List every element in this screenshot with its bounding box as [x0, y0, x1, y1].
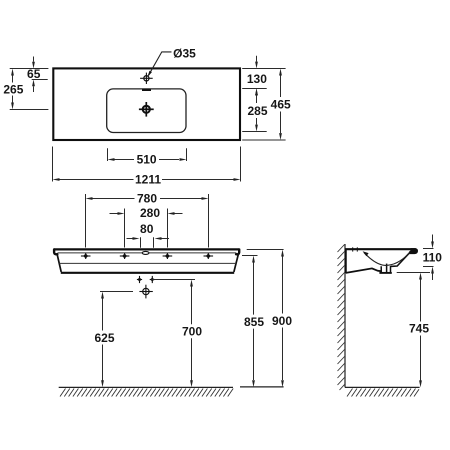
overflow slot — [142, 89, 151, 91]
svg-text:280: 280 — [140, 206, 160, 220]
washbasin top outer rect — [53, 68, 240, 140]
body left edge — [57, 253, 61, 272]
drain crosshair (front) — [139, 285, 152, 299]
svg-text:1211: 1211 — [135, 172, 161, 186]
drain trap cup (side) — [381, 266, 390, 272]
svg-text:700: 700 — [182, 325, 202, 339]
ground hatching (front) — [60, 389, 233, 397]
dim 900 — [247, 250, 284, 381]
ground hatching (side) — [347, 389, 419, 397]
svg-text:625: 625 — [94, 331, 114, 345]
dim 285 (right) — [242, 95, 267, 131]
svg-text:780: 780 — [137, 191, 157, 205]
svg-text:130: 130 — [247, 72, 267, 86]
dim 780 — [86, 194, 209, 248]
basin bowl rounded rect — [107, 89, 186, 133]
basin front: rim bar — [54, 249, 239, 272]
svg-text:510: 510 — [137, 153, 157, 167]
svg-text:65: 65 — [27, 67, 41, 81]
svg-text:110: 110 — [423, 250, 443, 264]
svg-text:465: 465 — [271, 98, 291, 112]
dim 625 — [100, 292, 133, 381]
fixing holes below basin (2x) — [137, 276, 155, 283]
rim left end hook — [54, 249, 57, 254]
dim 745 — [397, 273, 430, 381]
rim underside line — [58, 252, 237, 254]
body right edge — [234, 253, 239, 272]
svg-text:285: 285 — [247, 104, 267, 118]
dim 65 (left) — [10, 57, 49, 93]
ground line under dims — [240, 386, 284, 388]
body bottom edge — [61, 272, 234, 274]
dim 265 (left) — [10, 75, 49, 109]
wall hatching — [338, 245, 345, 391]
rim right end hook — [236, 249, 239, 254]
bowl profile arc with arrow — [364, 253, 410, 266]
side rim front lip — [409, 248, 418, 254]
side bottom profile — [346, 268, 381, 273]
overflow oval (front) — [142, 251, 149, 254]
dim 110 — [423, 235, 434, 281]
body mid line — [59, 262, 236, 264]
svg-text:265: 265 — [3, 82, 23, 96]
side back edge — [345, 250, 347, 273]
faucet hole crosshair — [140, 73, 153, 84]
underside to lip (side) — [391, 254, 409, 267]
dim 465 (right) — [242, 75, 285, 140]
svg-text:855: 855 — [244, 315, 264, 329]
dim 130 (right) — [242, 56, 285, 102]
dim 510 (below plan) — [108, 148, 187, 161]
dim 1211 (below plan) — [53, 147, 241, 182]
ground line (front view) — [59, 386, 233, 388]
drain crosshair (plan) — [139, 102, 154, 117]
svg-text:Ø35: Ø35 — [173, 47, 196, 61]
label O35 leader — [149, 52, 172, 75]
drain pipe line (side) — [386, 264, 388, 274]
svg-text:745: 745 — [409, 321, 429, 335]
dim 855 — [242, 256, 258, 381]
dim 280 — [110, 209, 183, 248]
side rim top — [345, 248, 416, 250]
ground line (side view) — [345, 386, 420, 388]
wall line — [344, 244, 346, 387]
dim 80 — [127, 237, 170, 248]
faucet hole ticks on side rim — [353, 247, 358, 251]
svg-text:80: 80 — [140, 222, 154, 236]
svg-text:900: 900 — [272, 314, 292, 328]
faucet marks on rim (4x) — [81, 253, 213, 259]
dim 700 — [152, 280, 196, 381]
